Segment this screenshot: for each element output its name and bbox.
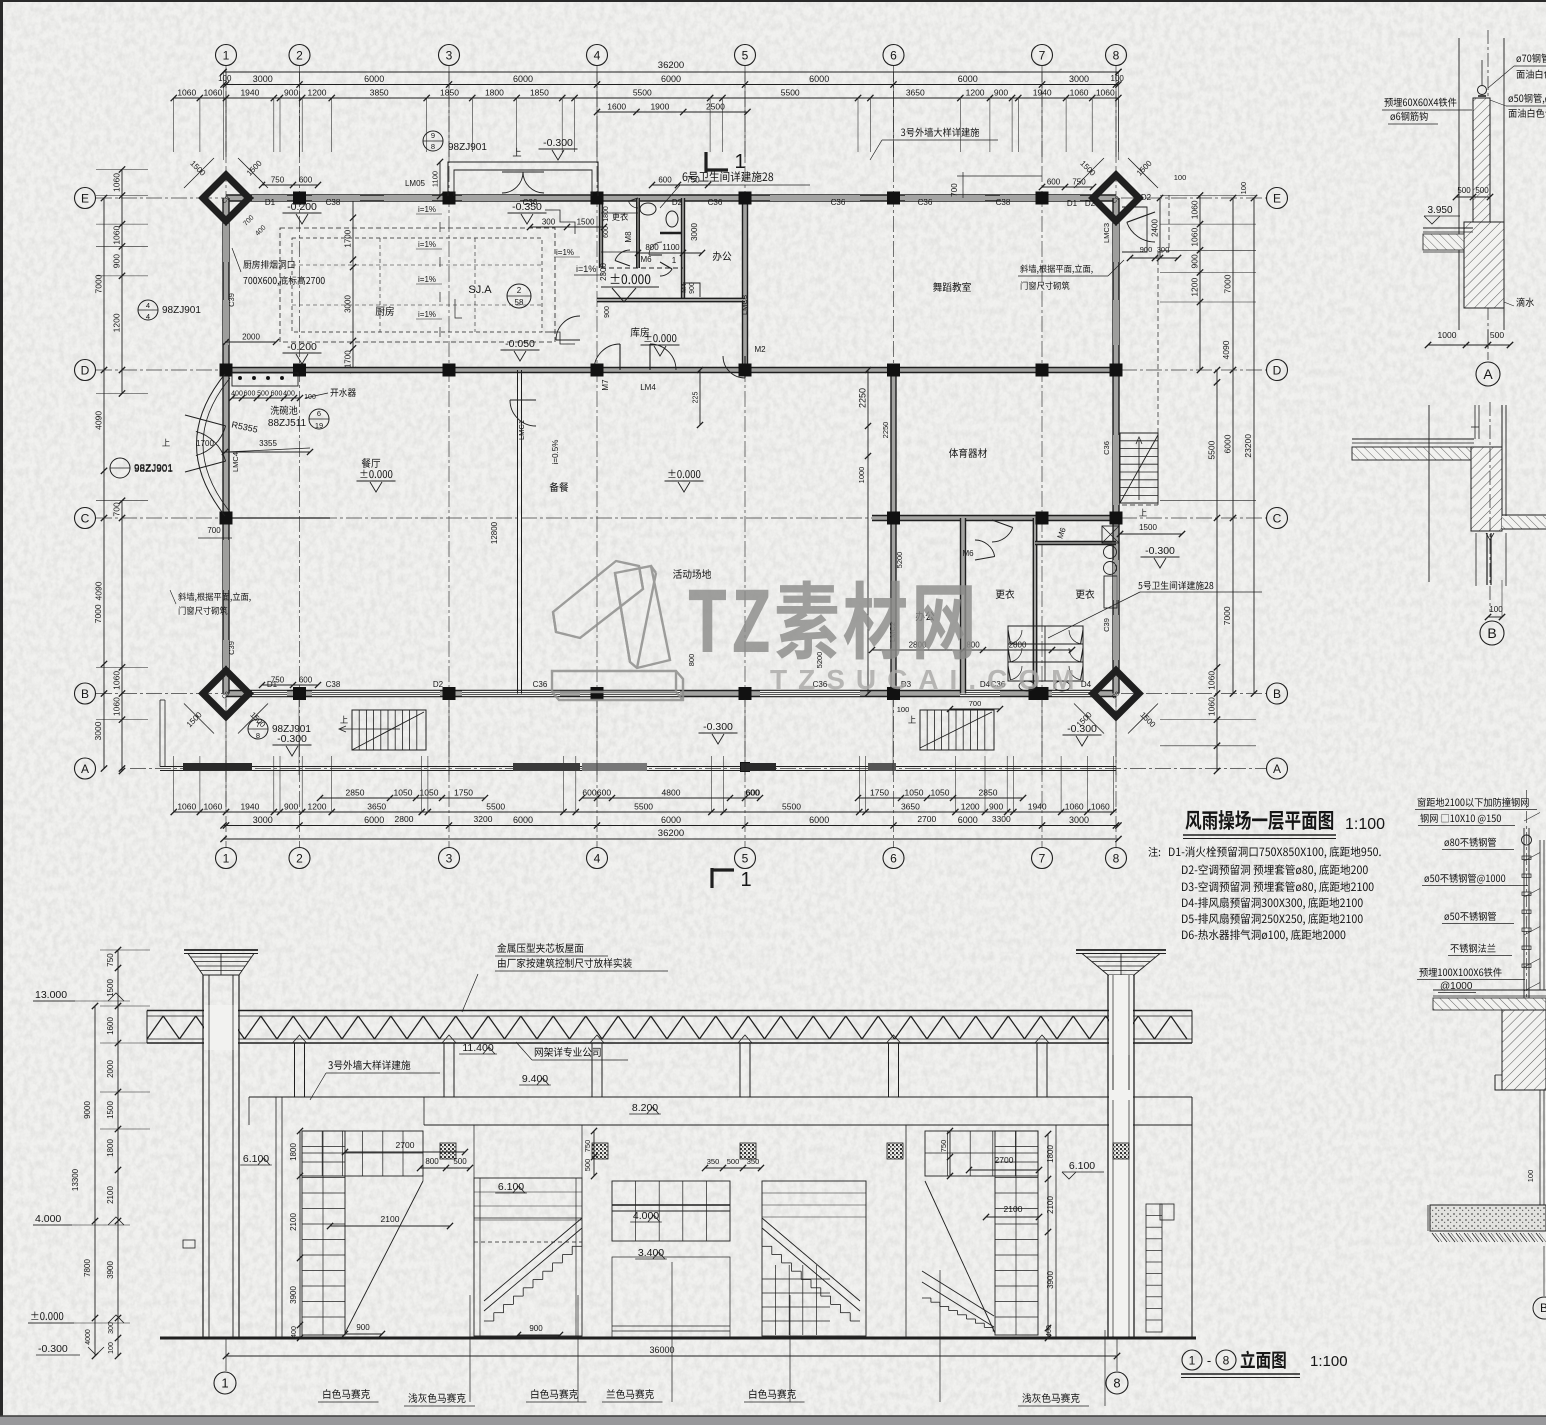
svg-text:13300: 13300 <box>71 1168 80 1191</box>
svg-text:23200: 23200 <box>1243 434 1253 458</box>
svg-text:-0.300: -0.300 <box>703 721 733 733</box>
svg-text:C39: C39 <box>227 641 236 655</box>
svg-text:1800: 1800 <box>485 88 504 98</box>
svg-text:i=1%: i=1% <box>418 205 436 214</box>
svg-text:3850: 3850 <box>370 88 389 98</box>
svg-text:5200: 5200 <box>895 552 904 569</box>
svg-text:C36: C36 <box>831 198 846 207</box>
svg-text:1000: 1000 <box>857 467 866 484</box>
svg-text:1: 1 <box>221 1376 228 1391</box>
svg-text:B: B <box>1273 687 1281 701</box>
svg-text:4: 4 <box>146 312 150 321</box>
svg-text:600: 600 <box>1047 178 1061 187</box>
svg-text:1200: 1200 <box>308 802 327 812</box>
svg-text:400: 400 <box>283 391 295 398</box>
svg-text:6000: 6000 <box>364 815 384 825</box>
svg-text:3200: 3200 <box>474 814 493 824</box>
svg-text:300: 300 <box>542 218 556 227</box>
svg-text:8: 8 <box>1113 1376 1120 1391</box>
svg-text:7000: 7000 <box>1222 606 1232 625</box>
svg-text:350: 350 <box>747 1157 760 1166</box>
svg-text:8: 8 <box>1223 1353 1230 1367</box>
svg-text:98ZJ901: 98ZJ901 <box>134 464 173 475</box>
svg-text:TZSUCAI.COM: TZSUCAI.COM <box>770 664 1085 695</box>
svg-text:88ZJ511: 88ZJ511 <box>268 418 307 429</box>
svg-text:1850: 1850 <box>440 88 459 98</box>
svg-text:i=1%: i=1% <box>556 248 574 257</box>
svg-text:3355: 3355 <box>259 439 277 448</box>
svg-text:6: 6 <box>890 851 897 865</box>
svg-text:7800: 7800 <box>83 1259 92 1277</box>
svg-text:100: 100 <box>1526 1170 1535 1183</box>
svg-text:3000: 3000 <box>690 223 699 241</box>
svg-text:-0.050: -0.050 <box>505 338 535 350</box>
svg-text:7000: 7000 <box>93 604 103 623</box>
svg-text:LM4: LM4 <box>640 383 656 392</box>
svg-text:4.000: 4.000 <box>633 1210 659 1222</box>
svg-text:1060: 1060 <box>1096 88 1115 98</box>
svg-text:LMC4: LMC4 <box>231 452 240 472</box>
svg-text:4090: 4090 <box>94 411 104 430</box>
svg-text:1:100: 1:100 <box>1345 816 1385 833</box>
svg-text:600: 600 <box>299 176 313 185</box>
svg-text:3000: 3000 <box>253 74 273 84</box>
svg-text:4800: 4800 <box>662 788 681 798</box>
svg-text:3000: 3000 <box>344 295 353 313</box>
svg-text:1060: 1060 <box>1065 802 1084 812</box>
svg-text:1060: 1060 <box>177 88 196 98</box>
svg-text:2700: 2700 <box>396 1140 415 1150</box>
svg-text:1060: 1060 <box>112 697 122 716</box>
svg-text:C36: C36 <box>918 198 933 207</box>
svg-text:98ZJ901: 98ZJ901 <box>162 305 201 316</box>
svg-text:100: 100 <box>897 705 910 714</box>
svg-text:LMC3: LMC3 <box>740 295 749 315</box>
svg-text:9: 9 <box>431 131 435 140</box>
svg-text:1: 1 <box>1189 1353 1196 1367</box>
svg-text:500: 500 <box>1490 330 1504 340</box>
svg-text:1050: 1050 <box>905 788 924 798</box>
svg-text:6.100: 6.100 <box>498 1181 524 1193</box>
svg-text:36200: 36200 <box>658 828 684 839</box>
svg-text:2850: 2850 <box>346 788 365 798</box>
svg-text:6: 6 <box>317 409 321 418</box>
svg-text:-0.200: -0.200 <box>287 341 317 353</box>
svg-text:2: 2 <box>296 851 303 865</box>
svg-text:1060: 1060 <box>112 671 122 690</box>
svg-text:C36: C36 <box>523 198 538 207</box>
svg-text:6000: 6000 <box>958 815 978 825</box>
svg-text:100: 100 <box>218 74 232 83</box>
svg-text:9.400: 9.400 <box>522 1073 548 1085</box>
svg-text:5500: 5500 <box>633 88 652 98</box>
svg-text:4000: 4000 <box>85 1329 92 1345</box>
svg-text:C36: C36 <box>708 198 723 207</box>
svg-text:1700: 1700 <box>344 229 353 247</box>
svg-text:1060: 1060 <box>1190 227 1200 246</box>
svg-text:D2: D2 <box>433 680 444 689</box>
svg-text:2250: 2250 <box>881 422 890 439</box>
svg-text:1200: 1200 <box>961 802 980 812</box>
svg-text:1200: 1200 <box>1190 277 1200 296</box>
svg-text:B: B <box>81 687 89 701</box>
svg-text:A: A <box>81 762 89 776</box>
svg-text:i=1%: i=1% <box>576 264 596 274</box>
svg-text:500: 500 <box>727 1157 740 1166</box>
svg-text:1900: 1900 <box>650 102 669 112</box>
svg-text:100: 100 <box>1489 605 1503 614</box>
svg-text:1940: 1940 <box>1028 802 1047 812</box>
svg-text:3000: 3000 <box>1069 74 1089 84</box>
svg-text:LMC3: LMC3 <box>1102 223 1111 243</box>
svg-text:8: 8 <box>1113 851 1120 865</box>
svg-text:C36: C36 <box>1102 441 1111 455</box>
svg-text:i=1%: i=1% <box>418 310 436 319</box>
svg-text:5500: 5500 <box>781 88 800 98</box>
svg-text:D1: D1 <box>265 198 276 207</box>
svg-text:1500: 1500 <box>106 1101 115 1119</box>
svg-text:D1: D1 <box>1067 199 1078 208</box>
svg-text:6000: 6000 <box>661 815 681 825</box>
svg-text:1060: 1060 <box>203 802 222 812</box>
svg-text:M6: M6 <box>962 549 974 558</box>
svg-text:6000: 6000 <box>958 74 978 84</box>
svg-text:8.200: 8.200 <box>632 1102 658 1114</box>
svg-text:LM05: LM05 <box>405 179 426 188</box>
svg-text:2400: 2400 <box>1151 219 1160 237</box>
svg-text:5500: 5500 <box>782 802 801 812</box>
svg-text:1750: 1750 <box>454 788 473 798</box>
svg-text:1060: 1060 <box>1207 671 1217 690</box>
svg-text:750: 750 <box>106 953 115 967</box>
svg-text:M7: M7 <box>601 379 610 391</box>
svg-text:-0.300: -0.300 <box>38 1343 68 1355</box>
svg-text:225: 225 <box>693 392 700 404</box>
svg-text:2000: 2000 <box>106 1060 115 1078</box>
svg-text:900: 900 <box>529 1324 543 1333</box>
svg-text:7: 7 <box>1039 851 1046 865</box>
svg-text:2700: 2700 <box>917 814 936 824</box>
svg-text:1060: 1060 <box>177 802 196 812</box>
svg-text:100: 100 <box>108 1342 115 1354</box>
svg-text:600: 600 <box>271 391 283 398</box>
svg-text:1500: 1500 <box>1139 523 1157 532</box>
svg-text:600: 600 <box>299 676 313 685</box>
svg-text:750: 750 <box>686 176 700 185</box>
svg-text:750: 750 <box>271 176 285 185</box>
svg-text:1050: 1050 <box>931 788 950 798</box>
svg-text:-0.300: -0.300 <box>1067 723 1097 735</box>
svg-text:1050: 1050 <box>394 788 413 798</box>
svg-text:4: 4 <box>146 301 150 310</box>
svg-text:900: 900 <box>356 1323 370 1332</box>
svg-text:7: 7 <box>256 720 260 729</box>
svg-text:98ZJ901: 98ZJ901 <box>448 142 487 153</box>
svg-text:3000: 3000 <box>253 815 273 825</box>
svg-text:800: 800 <box>425 1157 439 1166</box>
svg-text:1700: 1700 <box>344 350 353 368</box>
svg-text:1060: 1060 <box>1091 802 1110 812</box>
svg-text:6000: 6000 <box>513 74 533 84</box>
svg-text:2100: 2100 <box>1046 1196 1055 1214</box>
svg-text:1940: 1940 <box>240 802 259 812</box>
svg-text:D: D <box>81 363 90 377</box>
svg-text:-0.200: -0.200 <box>287 201 317 213</box>
svg-text:D2: D2 <box>1141 193 1152 202</box>
svg-text:400: 400 <box>1046 1325 1053 1337</box>
svg-text:1060: 1060 <box>112 225 122 244</box>
svg-text:C39: C39 <box>1102 618 1111 632</box>
svg-text:4: 4 <box>594 48 601 62</box>
svg-text:600: 600 <box>597 788 611 798</box>
svg-text:1060: 1060 <box>112 173 122 192</box>
svg-text:M2: M2 <box>754 345 766 354</box>
svg-text:5500: 5500 <box>1207 440 1217 459</box>
svg-text:SJ.A: SJ.A <box>468 284 492 296</box>
svg-text:5: 5 <box>742 48 749 62</box>
svg-text:900: 900 <box>604 306 611 318</box>
svg-text:1050: 1050 <box>420 788 439 798</box>
svg-text:-0.300: -0.300 <box>277 733 307 745</box>
svg-text:3: 3 <box>446 48 453 62</box>
svg-text:2100: 2100 <box>381 1214 400 1224</box>
svg-text:3.950: 3.950 <box>1427 205 1452 216</box>
svg-text:1750: 1750 <box>870 788 889 798</box>
svg-text:1850: 1850 <box>530 88 549 98</box>
svg-text:2100: 2100 <box>289 1213 298 1231</box>
svg-text:5500: 5500 <box>634 802 653 812</box>
svg-text:100: 100 <box>1239 182 1248 195</box>
svg-text:3650: 3650 <box>906 88 925 98</box>
svg-text:500: 500 <box>453 1157 467 1166</box>
svg-text:1600: 1600 <box>607 102 626 112</box>
svg-text:700: 700 <box>112 502 122 516</box>
svg-text:3.400: 3.400 <box>638 1247 664 1259</box>
svg-text:3900: 3900 <box>106 1261 115 1279</box>
svg-text:4090: 4090 <box>1221 340 1231 359</box>
svg-text:D2: D2 <box>672 198 683 207</box>
svg-text:700: 700 <box>969 699 982 708</box>
svg-text:C38: C38 <box>996 198 1011 207</box>
svg-text:9000: 9000 <box>83 1101 92 1119</box>
svg-text:1940: 1940 <box>240 88 259 98</box>
svg-text:900: 900 <box>989 802 1003 812</box>
svg-text:500: 500 <box>257 391 269 398</box>
svg-text:1100: 1100 <box>662 243 680 252</box>
svg-text:36000: 36000 <box>649 1345 674 1355</box>
svg-text:2700: 2700 <box>995 1155 1014 1165</box>
svg-text:C: C <box>1273 511 1282 525</box>
svg-text:7000: 7000 <box>1223 274 1233 293</box>
svg-text:13.000: 13.000 <box>35 989 67 1001</box>
svg-text:900: 900 <box>689 282 696 294</box>
svg-text:1200: 1200 <box>308 88 327 98</box>
svg-text:100: 100 <box>1174 173 1187 182</box>
svg-text:1600: 1600 <box>106 1017 115 1035</box>
svg-text:900: 900 <box>1190 254 1200 268</box>
svg-text:900: 900 <box>112 254 122 268</box>
svg-text:1: 1 <box>734 151 745 173</box>
svg-text:750: 750 <box>271 676 285 685</box>
svg-text:1200: 1200 <box>112 313 122 332</box>
svg-text:350: 350 <box>707 1157 720 1166</box>
svg-text:8: 8 <box>1113 48 1120 62</box>
svg-text:2800: 2800 <box>395 814 414 824</box>
svg-text:3000: 3000 <box>1069 815 1089 825</box>
svg-text:1800: 1800 <box>289 1143 298 1161</box>
svg-text:1060: 1060 <box>203 88 222 98</box>
svg-text:100: 100 <box>1111 74 1125 83</box>
svg-text:B: B <box>1540 1301 1546 1315</box>
svg-text:D: D <box>1273 363 1282 377</box>
svg-text:4.000: 4.000 <box>35 1213 61 1225</box>
svg-text:1500: 1500 <box>106 979 115 997</box>
svg-text:1060: 1060 <box>1190 200 1200 219</box>
svg-text:58: 58 <box>515 298 524 307</box>
svg-text:M8: M8 <box>624 231 633 243</box>
svg-text:6.100: 6.100 <box>1069 1160 1095 1172</box>
svg-text:-0.300: -0.300 <box>1145 545 1175 557</box>
svg-text:800: 800 <box>687 654 696 667</box>
svg-text:C38: C38 <box>326 680 341 689</box>
svg-text:8: 8 <box>256 731 260 740</box>
svg-text:750: 750 <box>583 1140 592 1153</box>
svg-text:i=1%: i=1% <box>418 275 436 284</box>
svg-text:900: 900 <box>284 802 298 812</box>
svg-text:1200: 1200 <box>966 88 985 98</box>
svg-text:4: 4 <box>594 851 601 865</box>
svg-text:3: 3 <box>446 851 453 865</box>
svg-text:1100: 1100 <box>431 171 440 187</box>
svg-text:6.100: 6.100 <box>243 1153 269 1165</box>
svg-text:2250: 2250 <box>858 388 868 408</box>
svg-text:500: 500 <box>1475 186 1489 195</box>
svg-text:1060: 1060 <box>1207 697 1217 716</box>
svg-text:2300: 2300 <box>599 263 608 281</box>
svg-text:E: E <box>1273 191 1281 205</box>
svg-text:1060: 1060 <box>1070 88 1089 98</box>
svg-text:C: C <box>81 511 90 525</box>
svg-text:6000: 6000 <box>809 74 829 84</box>
svg-text:7: 7 <box>1039 48 1046 62</box>
svg-text:700: 700 <box>950 183 959 197</box>
svg-text:M4: M4 <box>681 283 688 293</box>
svg-text:6000: 6000 <box>1223 434 1233 453</box>
svg-text:36200: 36200 <box>658 60 684 71</box>
svg-text:A: A <box>1273 762 1281 776</box>
svg-text:1: 1 <box>223 851 230 865</box>
svg-text:4090: 4090 <box>94 581 104 600</box>
svg-text:5500: 5500 <box>486 802 505 812</box>
svg-text:-0.300: -0.300 <box>543 137 573 149</box>
svg-text:8: 8 <box>431 142 435 151</box>
svg-text:12800: 12800 <box>490 521 499 544</box>
svg-text:900: 900 <box>994 88 1008 98</box>
svg-text:900: 900 <box>284 88 298 98</box>
svg-text:2850: 2850 <box>979 788 998 798</box>
svg-text:3300: 3300 <box>992 814 1011 824</box>
svg-text:11.400: 11.400 <box>462 1042 493 1054</box>
svg-text:1: 1 <box>740 869 751 891</box>
svg-text:i=0.5%: i=0.5% <box>551 440 560 465</box>
svg-text:500: 500 <box>583 1159 592 1172</box>
svg-text:6000: 6000 <box>364 74 384 84</box>
svg-text:400: 400 <box>231 391 243 398</box>
svg-text:M6: M6 <box>640 255 652 264</box>
svg-text:6000: 6000 <box>809 815 829 825</box>
svg-text:LMC1: LMC1 <box>517 420 526 440</box>
svg-text:750: 750 <box>939 1140 948 1153</box>
svg-text:3900: 3900 <box>289 1286 298 1304</box>
svg-text:600: 600 <box>746 788 760 798</box>
svg-text:C39: C39 <box>227 293 236 307</box>
svg-text:3000: 3000 <box>93 721 103 740</box>
svg-text:1: 1 <box>223 48 230 62</box>
svg-text:6000: 6000 <box>513 815 533 825</box>
svg-text:5: 5 <box>742 851 749 865</box>
svg-text:C36: C36 <box>533 680 548 689</box>
svg-text:750: 750 <box>1072 178 1086 187</box>
svg-text:3650: 3650 <box>367 802 386 812</box>
svg-text:6000: 6000 <box>661 74 681 84</box>
svg-text:7000: 7000 <box>94 274 104 293</box>
svg-text:300: 300 <box>108 1322 115 1334</box>
svg-text:1940: 1940 <box>1033 88 1052 98</box>
svg-text:19: 19 <box>315 421 323 430</box>
svg-text:A: A <box>1483 366 1493 382</box>
svg-text:2: 2 <box>517 286 522 295</box>
svg-text:800: 800 <box>645 243 659 252</box>
svg-text:600: 600 <box>658 176 672 185</box>
svg-text:300: 300 <box>1157 245 1170 254</box>
svg-text:1800: 1800 <box>1046 1145 1055 1163</box>
svg-text:C38: C38 <box>326 198 341 207</box>
svg-text:1000: 1000 <box>1438 330 1457 340</box>
svg-text:1: 1 <box>672 256 677 265</box>
svg-text:1800: 1800 <box>603 206 610 222</box>
svg-text:900: 900 <box>1140 245 1153 254</box>
svg-text:6: 6 <box>890 48 897 62</box>
svg-text:1:100: 1:100 <box>1310 1353 1348 1370</box>
svg-text:500: 500 <box>1457 186 1471 195</box>
svg-text:600: 600 <box>582 788 596 798</box>
svg-text:3900: 3900 <box>1046 1271 1055 1289</box>
svg-text:3650: 3650 <box>901 802 920 812</box>
svg-text:2800: 2800 <box>1009 641 1027 650</box>
svg-text:-: - <box>1207 1353 1211 1368</box>
svg-text:D2: D2 <box>1085 199 1096 208</box>
svg-text:2100: 2100 <box>106 1186 115 1204</box>
svg-text:2000: 2000 <box>242 333 260 342</box>
svg-text:700: 700 <box>207 526 221 535</box>
svg-text:B: B <box>1487 625 1496 641</box>
svg-text:600: 600 <box>244 391 256 398</box>
svg-text:1800: 1800 <box>106 1139 115 1157</box>
svg-text:1500: 1500 <box>577 218 595 227</box>
svg-text:i=1%: i=1% <box>418 240 436 249</box>
svg-text:E: E <box>81 191 89 205</box>
svg-text:2100: 2100 <box>1004 1204 1023 1214</box>
svg-text:1700: 1700 <box>196 439 214 448</box>
svg-text:2: 2 <box>296 48 303 62</box>
